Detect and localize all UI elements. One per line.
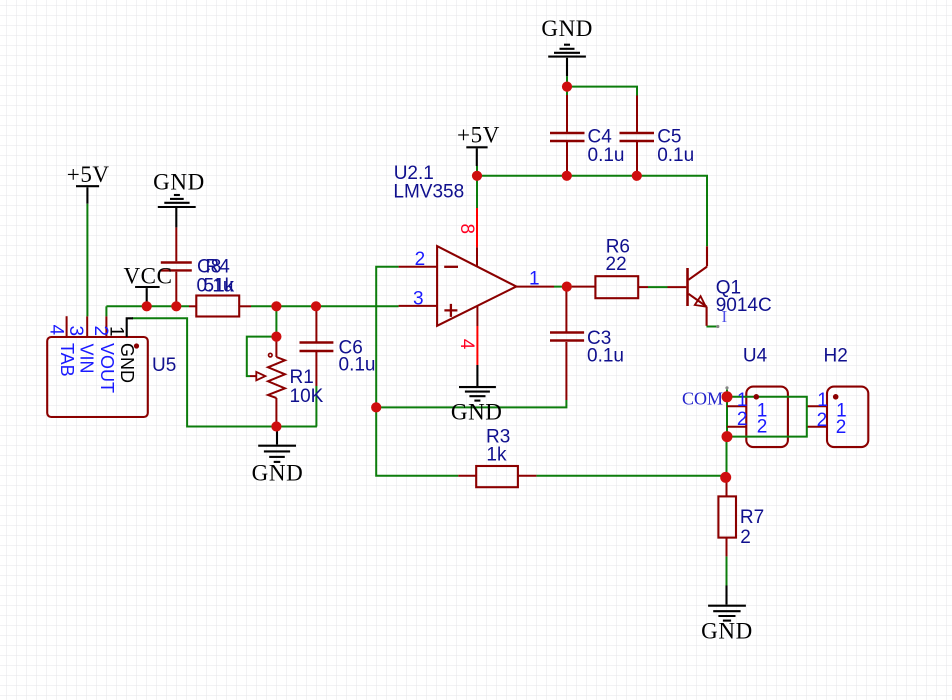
svg-text:1k: 1k bbox=[486, 444, 507, 465]
svg-text:10K: 10K bbox=[290, 386, 324, 407]
svg-text:0.1u: 0.1u bbox=[339, 354, 376, 375]
svg-text:GND: GND bbox=[701, 619, 753, 644]
svg-text:2: 2 bbox=[817, 410, 828, 431]
svg-text:LMV358: LMV358 bbox=[393, 181, 464, 202]
svg-text:VCC: VCC bbox=[123, 263, 172, 288]
svg-text:R7: R7 bbox=[740, 507, 764, 528]
svg-text:1: 1 bbox=[529, 268, 540, 289]
svg-text:2: 2 bbox=[757, 416, 768, 437]
svg-text:U4: U4 bbox=[743, 346, 768, 367]
svg-text:GND: GND bbox=[451, 400, 503, 425]
svg-text:GND: GND bbox=[117, 343, 137, 383]
svg-text:VOUT: VOUT bbox=[97, 343, 117, 393]
svg-text:2: 2 bbox=[737, 409, 748, 430]
svg-text:R4: R4 bbox=[206, 257, 231, 278]
svg-text:2: 2 bbox=[836, 417, 847, 438]
svg-text:VIN: VIN bbox=[76, 344, 96, 374]
svg-text:2: 2 bbox=[740, 527, 751, 548]
svg-text:I: I bbox=[722, 307, 728, 326]
svg-text:GND: GND bbox=[541, 16, 593, 41]
svg-text:4: 4 bbox=[46, 325, 67, 336]
svg-text:U5: U5 bbox=[152, 355, 176, 376]
svg-text:3: 3 bbox=[65, 326, 86, 337]
svg-text:0.1u: 0.1u bbox=[588, 145, 625, 166]
svg-text:GND: GND bbox=[252, 460, 304, 485]
svg-text:R1: R1 bbox=[290, 367, 314, 388]
svg-text:TAB: TAB bbox=[57, 343, 77, 377]
svg-text:1: 1 bbox=[817, 390, 828, 411]
svg-text:2: 2 bbox=[415, 249, 426, 270]
svg-text:8: 8 bbox=[456, 224, 477, 235]
svg-text:4: 4 bbox=[456, 339, 477, 350]
svg-text:+5V: +5V bbox=[457, 123, 500, 148]
svg-text:1: 1 bbox=[737, 390, 748, 411]
svg-text:+5V: +5V bbox=[67, 162, 110, 187]
svg-text:COM: COM bbox=[682, 388, 723, 408]
svg-text:22: 22 bbox=[606, 254, 627, 275]
svg-text:GND: GND bbox=[153, 170, 205, 195]
svg-text:H2: H2 bbox=[824, 346, 848, 367]
svg-text:0.1u: 0.1u bbox=[657, 145, 694, 166]
svg-text:51k: 51k bbox=[204, 276, 235, 297]
svg-text:0.1u: 0.1u bbox=[587, 345, 624, 366]
svg-text:1: 1 bbox=[106, 326, 127, 337]
svg-text:3: 3 bbox=[413, 288, 424, 309]
